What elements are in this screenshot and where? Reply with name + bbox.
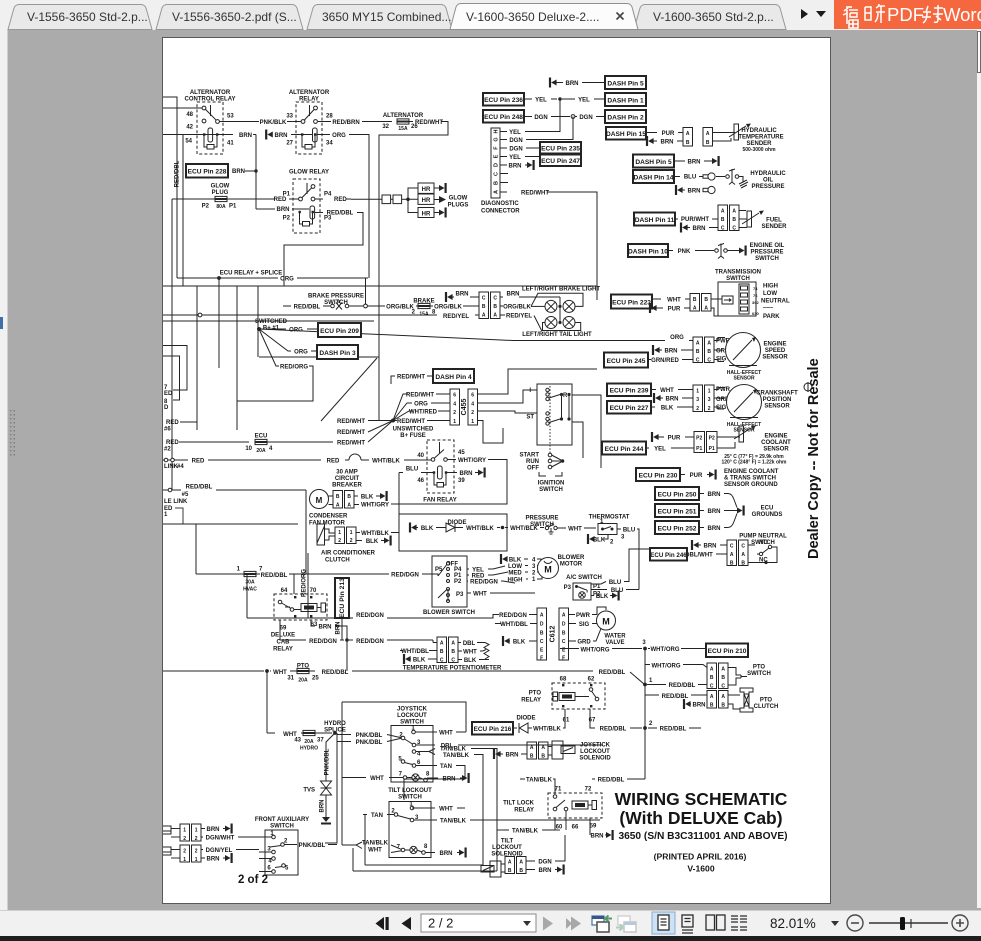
svg-text:D: D <box>540 622 544 628</box>
svg-text:C: C <box>440 658 444 664</box>
wire BLU from A/C switch P1 <box>591 582 606 585</box>
svg-text:A: A <box>519 860 523 866</box>
svg-text:RED/DGN: RED/DGN <box>499 613 527 619</box>
node RED/ORG vertical <box>307 553 309 618</box>
svg-text:RED/DBL: RED/DBL <box>175 160 181 187</box>
svg-text:MED: MED <box>508 571 522 577</box>
svg-text:WHT/DBL: WHT/DBL <box>401 649 429 655</box>
svg-text:A: A <box>482 313 486 319</box>
svg-text:ECU Pin 216: ECU Pin 216 <box>474 726 512 733</box>
svg-text:2: 2 <box>610 540 614 546</box>
svg-text:69: 69 <box>280 626 287 632</box>
svg-text:RUN: RUN <box>526 459 539 465</box>
wire BRN glow relay coil to bus <box>256 208 275 210</box>
svg-text:HYDRAULIC: HYDRAULIC <box>750 171 786 177</box>
svg-text:DBL: DBL <box>463 641 476 647</box>
svg-text:THERMOSTAT: THERMOSTAT <box>589 515 630 521</box>
svg-text:392: 392 <box>752 300 759 305</box>
svg-text:C: C <box>730 544 734 550</box>
svg-text:WHT/ORG: WHT/ORG <box>581 647 610 653</box>
svg-text:B: B <box>721 217 725 223</box>
first page button <box>376 917 412 930</box>
svg-text:#2: #2 <box>164 447 171 453</box>
svg-text:25: 25 <box>312 676 319 682</box>
svg-text:PARK: PARK <box>763 314 780 320</box>
svg-text:ENGINE: ENGINE <box>763 342 786 348</box>
svg-text:RED/DBL: RED/DBL <box>261 573 288 579</box>
svg-text:ECU: ECU <box>761 506 774 512</box>
svg-text:D: D <box>164 405 169 411</box>
wire left edge into relay pin 48 <box>163 107 202 109</box>
svg-text:BRN: BRN <box>693 226 706 232</box>
ignition switch <box>526 384 572 445</box>
svg-text:B: B <box>493 304 497 310</box>
DASH Pin 5 <box>605 76 646 89</box>
wire YEL pin E to ECU Pin 247 <box>500 156 507 158</box>
svg-text:WHT/BLK: WHT/BLK <box>466 526 494 532</box>
svg-text:DGN: DGN <box>538 860 551 866</box>
layout: single page (active) <box>652 912 675 934</box>
air conditioner clutch <box>317 524 399 564</box>
svg-text:PUMP NEUTRAL: PUMP NEUTRAL <box>739 534 787 540</box>
svg-text:DELUXE: DELUXE <box>271 633 295 639</box>
svg-text:PDF: PDF <box>887 4 924 25</box>
svg-text:20A: 20A <box>298 678 308 684</box>
svg-text:TRANSMISSION: TRANSMISSION <box>715 270 761 276</box>
svg-text:PUR: PUR <box>668 307 681 313</box>
svg-text:(With DELUXE Cab): (With DELUXE Cab) <box>619 808 782 828</box>
PNK/DBL feeds <box>337 735 351 742</box>
svg-text:BRN: BRN <box>661 140 674 146</box>
svg-text:RED/WHT: RED/WHT <box>406 393 434 399</box>
svg-text:A: A <box>721 694 725 700</box>
svg-text:WHT: WHT <box>439 807 453 813</box>
svg-text:BRN: BRN <box>509 164 522 170</box>
svg-text:POSITION: POSITION <box>763 397 792 403</box>
svg-text:PWR: PWR <box>576 613 591 619</box>
wire left verticals <box>197 286 258 430</box>
svg-text:M: M <box>316 496 323 505</box>
svg-text:COOLANT: COOLANT <box>761 440 791 446</box>
svg-text:LOW: LOW <box>763 291 777 297</box>
wire pin53 PNK/BLK to alternator relay <box>220 121 260 123</box>
svg-text:20A: 20A <box>256 448 266 454</box>
DASH Pin 11 / fuel sender <box>634 213 675 226</box>
svg-text:ST: ST <box>526 415 534 421</box>
svg-text:BRN: BRN <box>232 169 245 175</box>
thermostat <box>587 515 639 590</box>
svg-text:BLK: BLK <box>513 640 526 646</box>
svg-text:A: A <box>494 190 500 194</box>
svg-text:A: A <box>541 745 545 751</box>
svg-text:WHT/ORG: WHT/ORG <box>651 647 680 653</box>
svg-text:1: 1 <box>183 857 186 863</box>
svg-text:DASH Pin 3: DASH Pin 3 <box>319 350 356 357</box>
wires to HR plugs <box>408 188 418 213</box>
svg-text:RED/DGN: RED/DGN <box>470 580 498 586</box>
svg-text:WHT: WHT <box>368 848 382 854</box>
ECU Pin 239 <box>607 384 651 397</box>
svg-text:62: 62 <box>588 677 595 683</box>
A/C switch <box>564 575 602 600</box>
svg-text:RED/ORG: RED/ORG <box>280 365 308 371</box>
svg-text:C: C <box>707 358 711 364</box>
svg-text:JOYSTICK: JOYSTICK <box>397 707 428 713</box>
svg-text:54: 54 <box>185 139 192 145</box>
svg-text:B+ FUSE: B+ FUSE <box>400 433 426 439</box>
svg-text:B: B <box>530 754 534 760</box>
svg-text:B: B <box>686 140 690 146</box>
svg-text:A: A <box>730 552 734 558</box>
svg-text:CONDENSER: CONDENSER <box>309 514 348 520</box>
svg-text:GRD: GRD <box>577 640 591 646</box>
svg-text:ORG: ORG <box>294 350 308 356</box>
svg-text:SWITCH: SWITCH <box>530 522 554 528</box>
white page <box>162 37 831 904</box>
svg-text:PNK/DBL: PNK/DBL <box>325 748 331 775</box>
svg-text:WHT: WHT <box>660 388 674 394</box>
svg-text:2: 2 <box>195 836 198 842</box>
svg-text:A: A <box>686 131 690 137</box>
svg-text:R: R <box>563 393 568 399</box>
svg-text:PNK/DBL: PNK/DBL <box>299 843 326 849</box>
svg-text:WHT: WHT <box>473 592 487 598</box>
DASH Pin 5 (second) <box>633 155 674 168</box>
svg-text:RED/WHT: RED/WHT <box>415 120 443 126</box>
next view (disabled) <box>616 916 636 932</box>
svg-text:64: 64 <box>281 588 288 594</box>
svg-text:B: B <box>706 140 710 146</box>
svg-text:ORG: ORG <box>414 402 428 408</box>
svg-text:SWITCH: SWITCH <box>398 795 422 801</box>
svg-text:B: B <box>508 868 512 874</box>
svg-text:SWITCH: SWITCH <box>726 276 750 282</box>
blower switch <box>423 556 475 616</box>
unswitched B+ fuse splice <box>391 419 395 423</box>
svg-text:WHT/GRY: WHT/GRY <box>361 503 389 509</box>
svg-text:20A: 20A <box>304 739 314 745</box>
svg-text:H: H <box>494 129 500 133</box>
svg-text:BRN: BRN <box>336 622 342 635</box>
svg-text:M: M <box>544 565 552 575</box>
hydro splice <box>267 721 346 843</box>
svg-text:DASH Pin 5: DASH Pin 5 <box>635 159 672 166</box>
wire DGN ECU248 to DASH2 <box>524 116 532 118</box>
svg-text:B: B <box>710 703 714 709</box>
glow plug connector squares <box>382 195 391 204</box>
svg-text:B: B <box>693 297 697 303</box>
svg-text:C: C <box>696 358 700 364</box>
svg-text:SENSOR: SENSOR <box>764 404 790 410</box>
Foxit PDF to Word button <box>834 0 981 29</box>
left/right brake light <box>519 287 600 313</box>
svg-text:DASH Pin 4: DASH Pin 4 <box>435 374 472 381</box>
svg-text:RELAY: RELAY <box>521 698 541 704</box>
svg-text:PUR/WHT: PUR/WHT <box>681 217 709 223</box>
svg-text:C: C <box>494 172 500 176</box>
svg-text:39: 39 <box>458 478 465 484</box>
svg-text:ECU Pin 209: ECU Pin 209 <box>320 328 359 335</box>
svg-text:LOCKOUT: LOCKOUT <box>397 713 427 719</box>
svg-text:ECU Pin 227: ECU Pin 227 <box>610 405 649 412</box>
svg-text:ECU Pin 248: ECU Pin 248 <box>484 114 523 121</box>
svg-text:DASH Pin 2: DASH Pin 2 <box>607 115 644 122</box>
svg-text:RED: RED <box>327 459 340 465</box>
svg-text:P2: P2 <box>454 579 462 585</box>
ground BRN eyelet row <box>675 185 683 195</box>
svg-text:YEL: YEL <box>578 98 590 104</box>
svg-text:C: C <box>540 639 544 645</box>
svg-text:B: B <box>704 297 708 303</box>
svg-text:2 / 2: 2 / 2 <box>428 916 453 931</box>
svg-text:ECU Pin 250: ECU Pin 250 <box>658 492 697 499</box>
svg-text:DGN/YEL: DGN/YEL <box>206 848 233 854</box>
svg-text:ECU Pin 230: ECU Pin 230 <box>639 473 678 480</box>
tab scroll arrows <box>801 9 808 19</box>
svg-text:C: C <box>710 684 714 690</box>
svg-text:ECU Pin 210: ECU Pin 210 <box>708 648 747 655</box>
front aux connectors <box>163 824 259 864</box>
svg-text:BRN: BRN <box>456 292 469 298</box>
svg-text:RED/WHT: RED/WHT <box>397 419 425 425</box>
svg-text:VALVE: VALVE <box>605 640 624 646</box>
wire long y486 <box>163 523 298 525</box>
svg-text:RED/ORG: RED/ORG <box>302 569 308 597</box>
wire vertical to ECU Pin 228 BRN junction <box>255 135 257 210</box>
svg-text:TAN: TAN <box>371 813 383 819</box>
svg-text:D: D <box>494 163 500 167</box>
svg-text:WIRING SCHEMATIC: WIRING SCHEMATIC <box>615 789 788 809</box>
tab V-1556-3650-2.pdf <box>156 5 303 30</box>
svg-text:TAN/BLK: TAN/BLK <box>443 753 470 759</box>
tilt relay wiring <box>520 778 525 780</box>
svg-text:RED/DBL: RED/DBL <box>599 670 626 676</box>
svg-text:ECU Pin 239: ECU Pin 239 <box>610 388 649 395</box>
svg-text:3650 MY15 Combined...: 3650 MY15 Combined... <box>322 10 451 24</box>
svg-text:P2: P2 <box>696 436 702 442</box>
svg-text:A: A <box>562 613 566 619</box>
DASH Pin 4 <box>391 376 395 384</box>
svg-text:A: A <box>696 341 700 347</box>
tab V-1556-3650 Std-2 <box>8 5 152 30</box>
svg-text:SPEED: SPEED <box>765 348 786 354</box>
DASH Pin 3 <box>317 345 358 359</box>
ECU Pin 236 <box>483 93 524 106</box>
svg-text:HYDRO: HYDRO <box>300 746 318 752</box>
wires C455 to ignition switch <box>478 369 598 394</box>
svg-text:LOW: LOW <box>508 564 522 570</box>
svg-text:2: 2 <box>708 406 711 412</box>
svg-text:ECU Pin 244: ECU Pin 244 <box>605 446 644 453</box>
glyph fu (Foxit) <box>843 7 858 28</box>
svg-text:TAN/BLK: TAN/BLK <box>440 819 467 825</box>
joystick lockout switch <box>391 707 433 783</box>
svg-text:70: 70 <box>310 588 317 594</box>
ECU Pin 228 <box>186 164 228 178</box>
svg-text:PUR: PUR <box>662 131 675 137</box>
svg-text:UNSWITCHED: UNSWITCHED <box>393 427 434 433</box>
water valve <box>569 607 627 646</box>
svg-text:C: C <box>721 684 725 690</box>
svg-text:ENGINE OIL: ENGINE OIL <box>750 243 785 249</box>
svg-text:V-1600: V-1600 <box>687 864 714 874</box>
svg-text:80A: 80A <box>216 204 226 210</box>
svg-text:GLOW: GLOW <box>211 184 230 190</box>
wire YEL ECU236 to DASH1 <box>524 98 532 100</box>
pump neutral switch <box>679 534 787 567</box>
svg-text:CLUTCH: CLUTCH <box>325 558 350 564</box>
svg-text:C: C <box>741 544 745 550</box>
svg-text:BLK: BLK <box>421 526 434 532</box>
svg-text:ECU Pin 252: ECU Pin 252 <box>658 526 697 533</box>
svg-text:ECU Pin 235: ECU Pin 235 <box>541 146 580 153</box>
svg-text:V-1556-3650 Std-2.p...: V-1556-3650 Std-2.p... <box>27 10 148 24</box>
svg-text:G: G <box>494 137 500 141</box>
fusible link #5 <box>168 488 172 492</box>
svg-text:PRESSURE: PRESSURE <box>525 516 558 522</box>
svg-text:B: B <box>741 561 745 567</box>
svg-text:4: 4 <box>532 558 536 564</box>
svg-text:BREAKER: BREAKER <box>332 483 362 489</box>
front auxiliary switch <box>255 817 309 875</box>
svg-text:BRN: BRN <box>591 834 604 840</box>
svg-text:PUR: PUR <box>668 436 681 442</box>
svg-text:40: 40 <box>417 453 424 459</box>
svg-text:RED/DGN: RED/DGN <box>356 639 384 645</box>
wire DGN pin G <box>500 139 507 141</box>
svg-text:2: 2 <box>183 849 186 855</box>
transmission switch <box>715 270 790 321</box>
svg-text:66: 66 <box>572 825 579 831</box>
diode row <box>409 523 417 533</box>
svg-text:PLUG: PLUG <box>212 190 229 196</box>
svg-text:WHT/BLK: WHT/BLK <box>372 459 400 465</box>
svg-text:1: 1 <box>532 577 536 583</box>
svg-text:ECU Pin 223: ECU Pin 223 <box>612 300 651 307</box>
svg-text:DGN: DGN <box>534 115 547 121</box>
svg-text:B: B <box>336 494 340 500</box>
svg-text:BRN: BRN <box>693 703 706 709</box>
svg-text:PRESSURE: PRESSURE <box>750 250 783 256</box>
brake/tail C-B-A connectors <box>479 292 489 319</box>
svg-text:74: 74 <box>753 286 758 291</box>
svg-text:IGNITION: IGNITION <box>538 481 565 487</box>
svg-text:BLK: BLK <box>366 539 379 545</box>
svg-text:BRN: BRN <box>566 81 579 87</box>
ground BRN at alternator relay <box>265 130 273 140</box>
svg-text:SWITCH: SWITCH <box>747 671 771 677</box>
switched B+ #1 splice <box>237 319 513 401</box>
svg-text:15A: 15A <box>398 126 408 132</box>
svg-text:DGN/WHT: DGN/WHT <box>206 836 235 842</box>
condenser fan motor <box>309 490 389 527</box>
engine coolant sensor <box>646 426 791 466</box>
svg-text:B: B <box>482 304 486 310</box>
svg-text:OFF: OFF <box>527 466 539 472</box>
svg-text:V-1600-3650 Deluxe-2....: V-1600-3650 Deluxe-2.... <box>466 10 599 24</box>
wire WHT/GRY loop <box>448 459 457 461</box>
ECU Pin 246 <box>650 548 687 561</box>
svg-text:A: A <box>710 667 714 673</box>
svg-text:OIL: OIL <box>763 178 773 184</box>
svg-text:P5: P5 <box>435 567 443 573</box>
svg-text:TAN/BLK: TAN/BLK <box>526 778 553 784</box>
svg-text:SENSOR: SENSOR <box>763 447 789 453</box>
svg-text:F: F <box>562 656 565 662</box>
svg-text:PTO: PTO <box>529 691 542 697</box>
svg-text:ECU Pin 228: ECU Pin 228 <box>188 169 227 176</box>
svg-text:B: B <box>696 349 700 355</box>
svg-text:CIRCUIT: CIRCUIT <box>335 476 360 482</box>
svg-text:NC: NC <box>759 558 768 564</box>
wire BLU P2 <box>591 589 607 591</box>
svg-text:HR: HR <box>422 187 431 193</box>
svg-text:YEL: YEL <box>509 155 521 161</box>
tilt lockout solenoid <box>481 835 565 877</box>
svg-text:BLK: BLK <box>593 538 606 544</box>
svg-text:E: E <box>494 154 500 158</box>
svg-text:WHT/GRY: WHT/GRY <box>458 458 486 464</box>
svg-text:A: A <box>706 131 710 137</box>
svg-text:DASH Pin 1: DASH Pin 1 <box>607 98 644 105</box>
ignition start/run/off mechanism <box>519 445 564 493</box>
svg-text:2: 2 <box>696 406 699 412</box>
svg-text:C: C <box>482 296 486 302</box>
svg-text:ECU Pin 236: ECU Pin 236 <box>484 97 523 104</box>
svg-text:1: 1 <box>164 512 168 518</box>
svg-text:A: A <box>336 503 340 509</box>
svg-text:B: B <box>562 631 566 637</box>
wire RED/DBL from glow relay P3 <box>315 212 323 214</box>
tilt lock relay <box>503 787 602 831</box>
svg-text:2: 2 <box>471 410 474 416</box>
svg-text:1: 1 <box>708 389 711 395</box>
connector C612 <box>537 608 569 662</box>
svg-text:B: B <box>721 675 725 681</box>
svg-text:WHT: WHT <box>463 650 477 656</box>
svg-text:1: 1 <box>183 828 186 834</box>
svg-text:ORG: ORG <box>280 277 294 283</box>
wire RED/DGN to C612 A <box>495 614 499 616</box>
wire RED/DGN row from relay 69 <box>280 620 306 640</box>
left collapsed panel <box>0 30 8 910</box>
svg-text:MOTOR: MOTOR <box>560 562 583 568</box>
svg-text:GROUNDS: GROUNDS <box>752 512 783 518</box>
svg-text:BRN: BRN <box>320 800 326 813</box>
svg-text:D: D <box>562 622 566 628</box>
svg-text:CRANKSHAFT: CRANKSHAFT <box>756 391 798 397</box>
svg-text:ECU: ECU <box>255 434 268 440</box>
svg-text:ORG/BLK: ORG/BLK <box>386 305 414 311</box>
svg-text:P3: P3 <box>456 592 464 598</box>
svg-text:A/C SWITCH: A/C SWITCH <box>566 575 602 581</box>
svg-text:DASH Pin 15: DASH Pin 15 <box>606 131 646 138</box>
svg-text:DBL/WHT: DBL/WHT <box>685 553 713 559</box>
svg-text:RED/DBL: RED/DBL <box>327 211 354 217</box>
svg-text:P1: P1 <box>696 446 702 452</box>
svg-text:RED/DBL: RED/DBL <box>598 778 625 784</box>
svg-text:6: 6 <box>453 393 456 399</box>
svg-text:2: 2 <box>350 538 353 544</box>
svg-text:C: C <box>451 658 455 664</box>
svg-text:P2: P2 <box>202 204 210 210</box>
svg-text:WHT/DBL: WHT/DBL <box>500 622 528 628</box>
svg-text:PLUGS: PLUGS <box>448 203 469 209</box>
svg-text:DIAGNOSTIC: DIAGNOSTIC <box>481 201 519 207</box>
svg-text:Word: Word <box>943 4 981 25</box>
svg-text:B: B <box>347 494 351 500</box>
svg-text:RED/DBL: RED/DBL <box>660 727 687 733</box>
